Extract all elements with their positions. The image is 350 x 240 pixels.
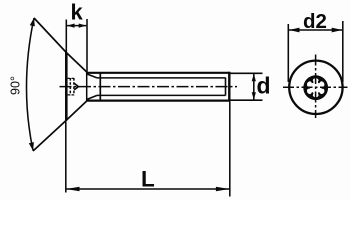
svg-text:d: d bbox=[257, 73, 271, 99]
svg-text:d2: d2 bbox=[303, 10, 327, 33]
torx recess cone tip bbox=[74, 83, 78, 90]
dimension L extension line left bbox=[65, 121, 67, 193]
dimension d2 arrow left bbox=[289, 28, 300, 33]
head flat face bbox=[65, 53, 68, 121]
dimension L arrow left bbox=[66, 187, 80, 192]
centerline of side view bbox=[60, 86, 238, 88]
shaft top outline bbox=[87, 72, 230, 74]
90 arc arrow top bbox=[30, 18, 35, 26]
dimension k line bbox=[67, 25, 86, 27]
thread runout bottom bbox=[87, 95, 97, 99]
cone top edge with 90 extension bbox=[34, 18, 87, 72]
dimension L arrow right bbox=[216, 187, 230, 192]
dimension d2 arrow right bbox=[332, 28, 343, 33]
dimension L line bbox=[66, 188, 229, 190]
thread minor line bottom bbox=[97, 94, 226, 96]
end view head circle bbox=[289, 61, 342, 114]
dimension k arrow right bbox=[79, 24, 87, 28]
torx recess hidden wall 2 bbox=[73, 78, 75, 95]
svg-text:L: L bbox=[141, 167, 155, 192]
svg-text:k: k bbox=[71, 0, 84, 24]
torx recess hidden wall 1 bbox=[69, 78, 71, 95]
torx petal cutouts bbox=[319, 80, 325, 87]
torx recess ring bbox=[303, 75, 328, 100]
dimension d2 line bbox=[289, 29, 342, 31]
dimension d arrow top bbox=[252, 74, 256, 82]
dimension k arrow left bbox=[67, 24, 75, 28]
shaft end face bbox=[228, 72, 230, 102]
dimension k extension line left bbox=[65, 20, 67, 53]
thread runout top bbox=[87, 74, 97, 78]
thread minor line top bbox=[97, 77, 226, 79]
head/shank junction line bbox=[86, 72, 88, 101]
dimension d extension line top bbox=[231, 72, 263, 74]
torx recess hidden top wall bbox=[68, 77, 74, 79]
thread start line bbox=[99, 73, 101, 101]
dimension d2 extension line right bbox=[342, 21, 344, 82]
cone bottom edge with 90 extension bbox=[33, 101, 87, 151]
end view vertical centerline bbox=[315, 55, 317, 119]
dimension d2 extension line left bbox=[287, 24, 289, 82]
90 arc arrow bottom bbox=[29, 142, 34, 150]
dimension L extension line right bbox=[229, 102, 231, 197]
dimension d arrow bottom bbox=[252, 92, 256, 100]
dimension d line bbox=[253, 74, 255, 100]
svg-text:90°: 90° bbox=[8, 76, 22, 95]
end view horizontal centerline bbox=[283, 86, 348, 88]
torx recess hidden bottom wall bbox=[68, 94, 74, 96]
dimension k extension line right bbox=[86, 19, 88, 72]
shaft bottom outline bbox=[87, 99, 230, 101]
90 degree arc bbox=[26, 18, 34, 151]
dimension d extension line bottom bbox=[231, 99, 263, 101]
end chamfer line bbox=[225, 78, 227, 96]
